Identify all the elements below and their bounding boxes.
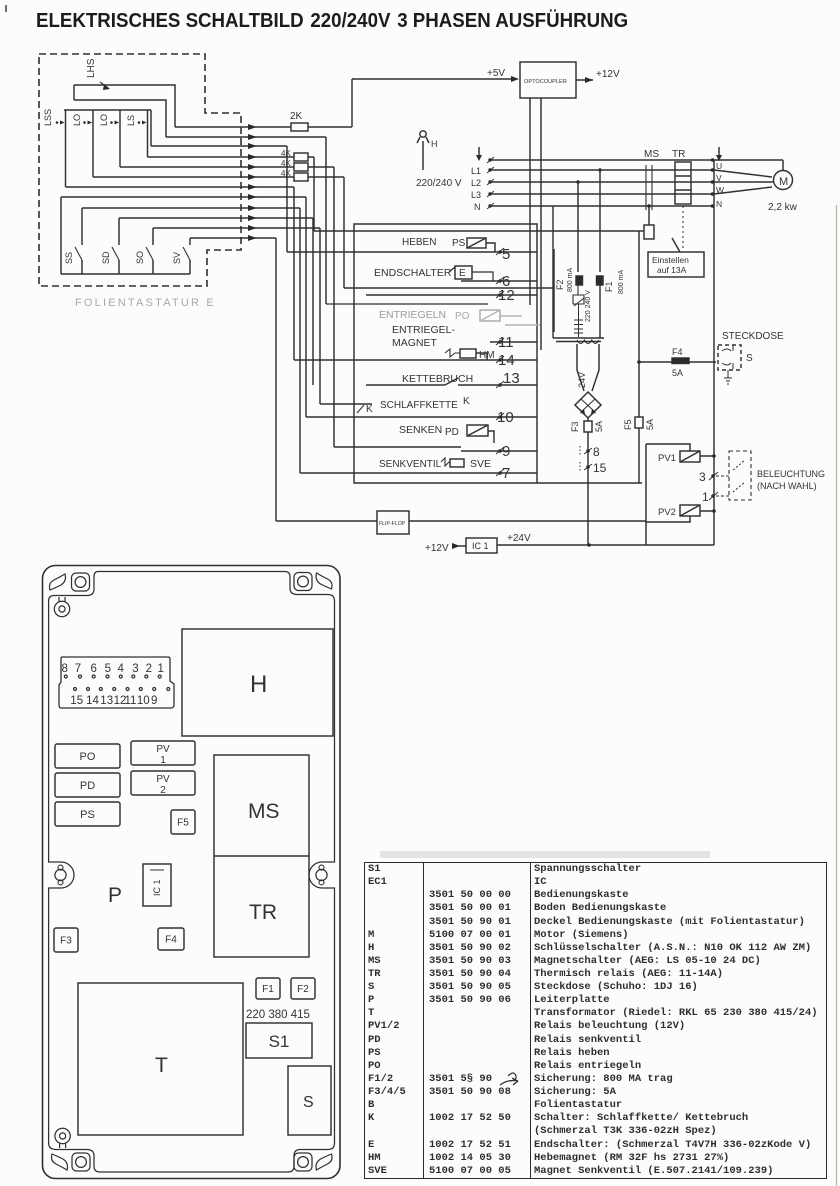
svg-text:10: 10 [137, 695, 150, 707]
svg-text:F1: F1 [604, 281, 614, 292]
svg-text:4: 4 [117, 663, 124, 675]
svg-text:M: M [779, 176, 788, 188]
svg-text:HEBEN: HEBEN [402, 237, 436, 248]
svg-text:S1: S1 [269, 1032, 290, 1051]
svg-text:PO: PO [455, 311, 470, 322]
svg-text:220 240 V: 220 240 V [585, 290, 592, 322]
svg-text:3: 3 [132, 663, 138, 675]
svg-text:IC 1: IC 1 [472, 541, 489, 551]
svg-text:LHS: LHS [86, 58, 97, 78]
svg-text:PS: PS [452, 238, 466, 249]
svg-text:PV2: PV2 [658, 507, 676, 518]
svg-text:+12V: +12V [425, 543, 449, 554]
svg-text:K: K [463, 396, 470, 407]
svg-text:14: 14 [86, 695, 99, 707]
svg-text:3: 3 [699, 470, 706, 484]
svg-text:SENKVENTIL: SENKVENTIL [379, 459, 442, 470]
svg-text:Einstellen: Einstellen [652, 255, 689, 265]
svg-text:7: 7 [502, 465, 510, 482]
svg-text:F2: F2 [555, 279, 565, 290]
svg-text:2,2 kw: 2,2 kw [768, 202, 798, 213]
svg-text:TR: TR [672, 149, 685, 160]
svg-text:+5V: +5V [487, 68, 505, 79]
svg-text:ENTRIEGELN: ENTRIEGELN [379, 309, 446, 321]
svg-text:5A: 5A [645, 419, 655, 430]
svg-text:L2: L2 [471, 178, 481, 188]
svg-text:PV: PV [156, 774, 170, 785]
svg-text:2: 2 [146, 663, 152, 675]
svg-text:4K: 4K [281, 159, 291, 168]
svg-text:10: 10 [497, 409, 514, 426]
svg-text:LO: LO [72, 114, 82, 126]
svg-text:5A: 5A [594, 421, 604, 432]
svg-text:+24V: +24V [507, 533, 531, 544]
svg-text:SO: SO [135, 251, 145, 264]
svg-text:L1: L1 [471, 166, 481, 176]
svg-text:PD: PD [80, 780, 95, 792]
svg-text:F1: F1 [262, 984, 274, 995]
svg-text:SCHLAFFKETTE: SCHLAFFKETTE [380, 400, 458, 411]
svg-text:PV1: PV1 [658, 453, 676, 464]
svg-text:220 380 415: 220 380 415 [246, 1009, 310, 1021]
svg-text:F4: F4 [165, 935, 177, 946]
svg-text:800 mA: 800 mA [618, 270, 625, 294]
svg-text:1: 1 [157, 663, 163, 675]
svg-text:L3: L3 [471, 190, 481, 200]
svg-text:STECKDOSE: STECKDOSE [722, 331, 784, 342]
svg-text:MS: MS [248, 800, 280, 823]
svg-text:BELEUCHTUNG: BELEUCHTUNG [757, 469, 825, 479]
svg-text:F3: F3 [570, 421, 580, 432]
svg-text:LO: LO [99, 114, 109, 126]
svg-text:F4: F4 [672, 347, 683, 357]
svg-text:24V: 24V [577, 372, 587, 388]
svg-text:SENKEN: SENKEN [399, 424, 442, 436]
svg-text:N: N [474, 202, 481, 212]
svg-text:H: H [431, 139, 438, 149]
svg-text:220/240 V: 220/240 V [416, 178, 462, 189]
svg-text:4K: 4K [281, 169, 291, 178]
svg-text:7: 7 [75, 663, 81, 675]
svg-text:N: N [716, 199, 722, 209]
svg-text:K: K [366, 404, 373, 415]
svg-text:15: 15 [593, 461, 607, 475]
svg-text:11: 11 [498, 334, 514, 351]
svg-text:5: 5 [105, 663, 111, 675]
svg-text:MAGNET: MAGNET [392, 337, 438, 349]
svg-text:S: S [746, 353, 753, 364]
svg-text:MS: MS [644, 149, 659, 160]
svg-text:14: 14 [498, 352, 515, 369]
svg-text:SV: SV [172, 252, 182, 264]
svg-text:1: 1 [702, 490, 709, 504]
svg-text:800 mA: 800 mA [567, 268, 574, 292]
svg-text:6: 6 [90, 663, 96, 675]
svg-text:8: 8 [593, 445, 600, 459]
svg-text:15: 15 [70, 695, 83, 707]
svg-text:11: 11 [125, 695, 137, 707]
svg-text:P: P [108, 884, 122, 907]
svg-text:F3: F3 [60, 936, 72, 947]
svg-text:SD: SD [101, 251, 111, 264]
svg-text:T: T [155, 1054, 168, 1077]
svg-text:ENDSCHALTER: ENDSCHALTER [374, 267, 452, 279]
svg-text:8: 8 [61, 663, 67, 675]
svg-text:U: U [716, 161, 722, 171]
svg-text:auf 13A: auf 13A [657, 265, 687, 275]
svg-text:IC 1: IC 1 [152, 879, 162, 896]
svg-text:LS: LS [126, 115, 136, 126]
svg-text:F2: F2 [297, 984, 309, 995]
svg-text:9: 9 [151, 695, 157, 707]
svg-text:4K: 4K [281, 149, 291, 158]
svg-text:F5: F5 [623, 419, 633, 430]
svg-text:PS: PS [80, 809, 95, 821]
svg-text:PD: PD [445, 427, 459, 438]
svg-text:E: E [459, 268, 466, 279]
svg-text:PV: PV [156, 744, 170, 755]
svg-text:5A: 5A [672, 368, 683, 378]
svg-text:H: H [250, 671, 267, 698]
svg-text:SS: SS [64, 252, 74, 264]
svg-text:OPTOCOUPLER: OPTOCOUPLER [524, 79, 567, 85]
svg-text:12: 12 [498, 287, 515, 304]
svg-text:PO: PO [80, 751, 96, 763]
svg-text:LSS: LSS [43, 109, 53, 126]
svg-text:FOLIENTASTATUR E: FOLIENTASTATUR E [75, 297, 216, 309]
svg-text:SVE: SVE [470, 458, 491, 470]
svg-text:KETTEBRUCH: KETTEBRUCH [402, 373, 473, 385]
svg-text:+12V: +12V [596, 69, 620, 80]
svg-text:S: S [303, 1094, 314, 1111]
svg-text:2K: 2K [290, 111, 303, 122]
svg-text:2: 2 [160, 785, 166, 796]
svg-text:(NACH WAHL): (NACH WAHL) [757, 481, 817, 491]
svg-text:TR: TR [249, 901, 277, 924]
svg-text:ENTRIEGEL-: ENTRIEGEL- [392, 324, 456, 336]
svg-text:F5: F5 [177, 818, 189, 829]
svg-text:13: 13 [100, 695, 113, 707]
svg-text:5: 5 [502, 246, 510, 263]
svg-text:1: 1 [160, 755, 166, 766]
svg-text:13: 13 [503, 370, 520, 387]
svg-text:9: 9 [502, 443, 510, 460]
svg-text:FLIP-FLOP: FLIP-FLOP [379, 521, 406, 527]
